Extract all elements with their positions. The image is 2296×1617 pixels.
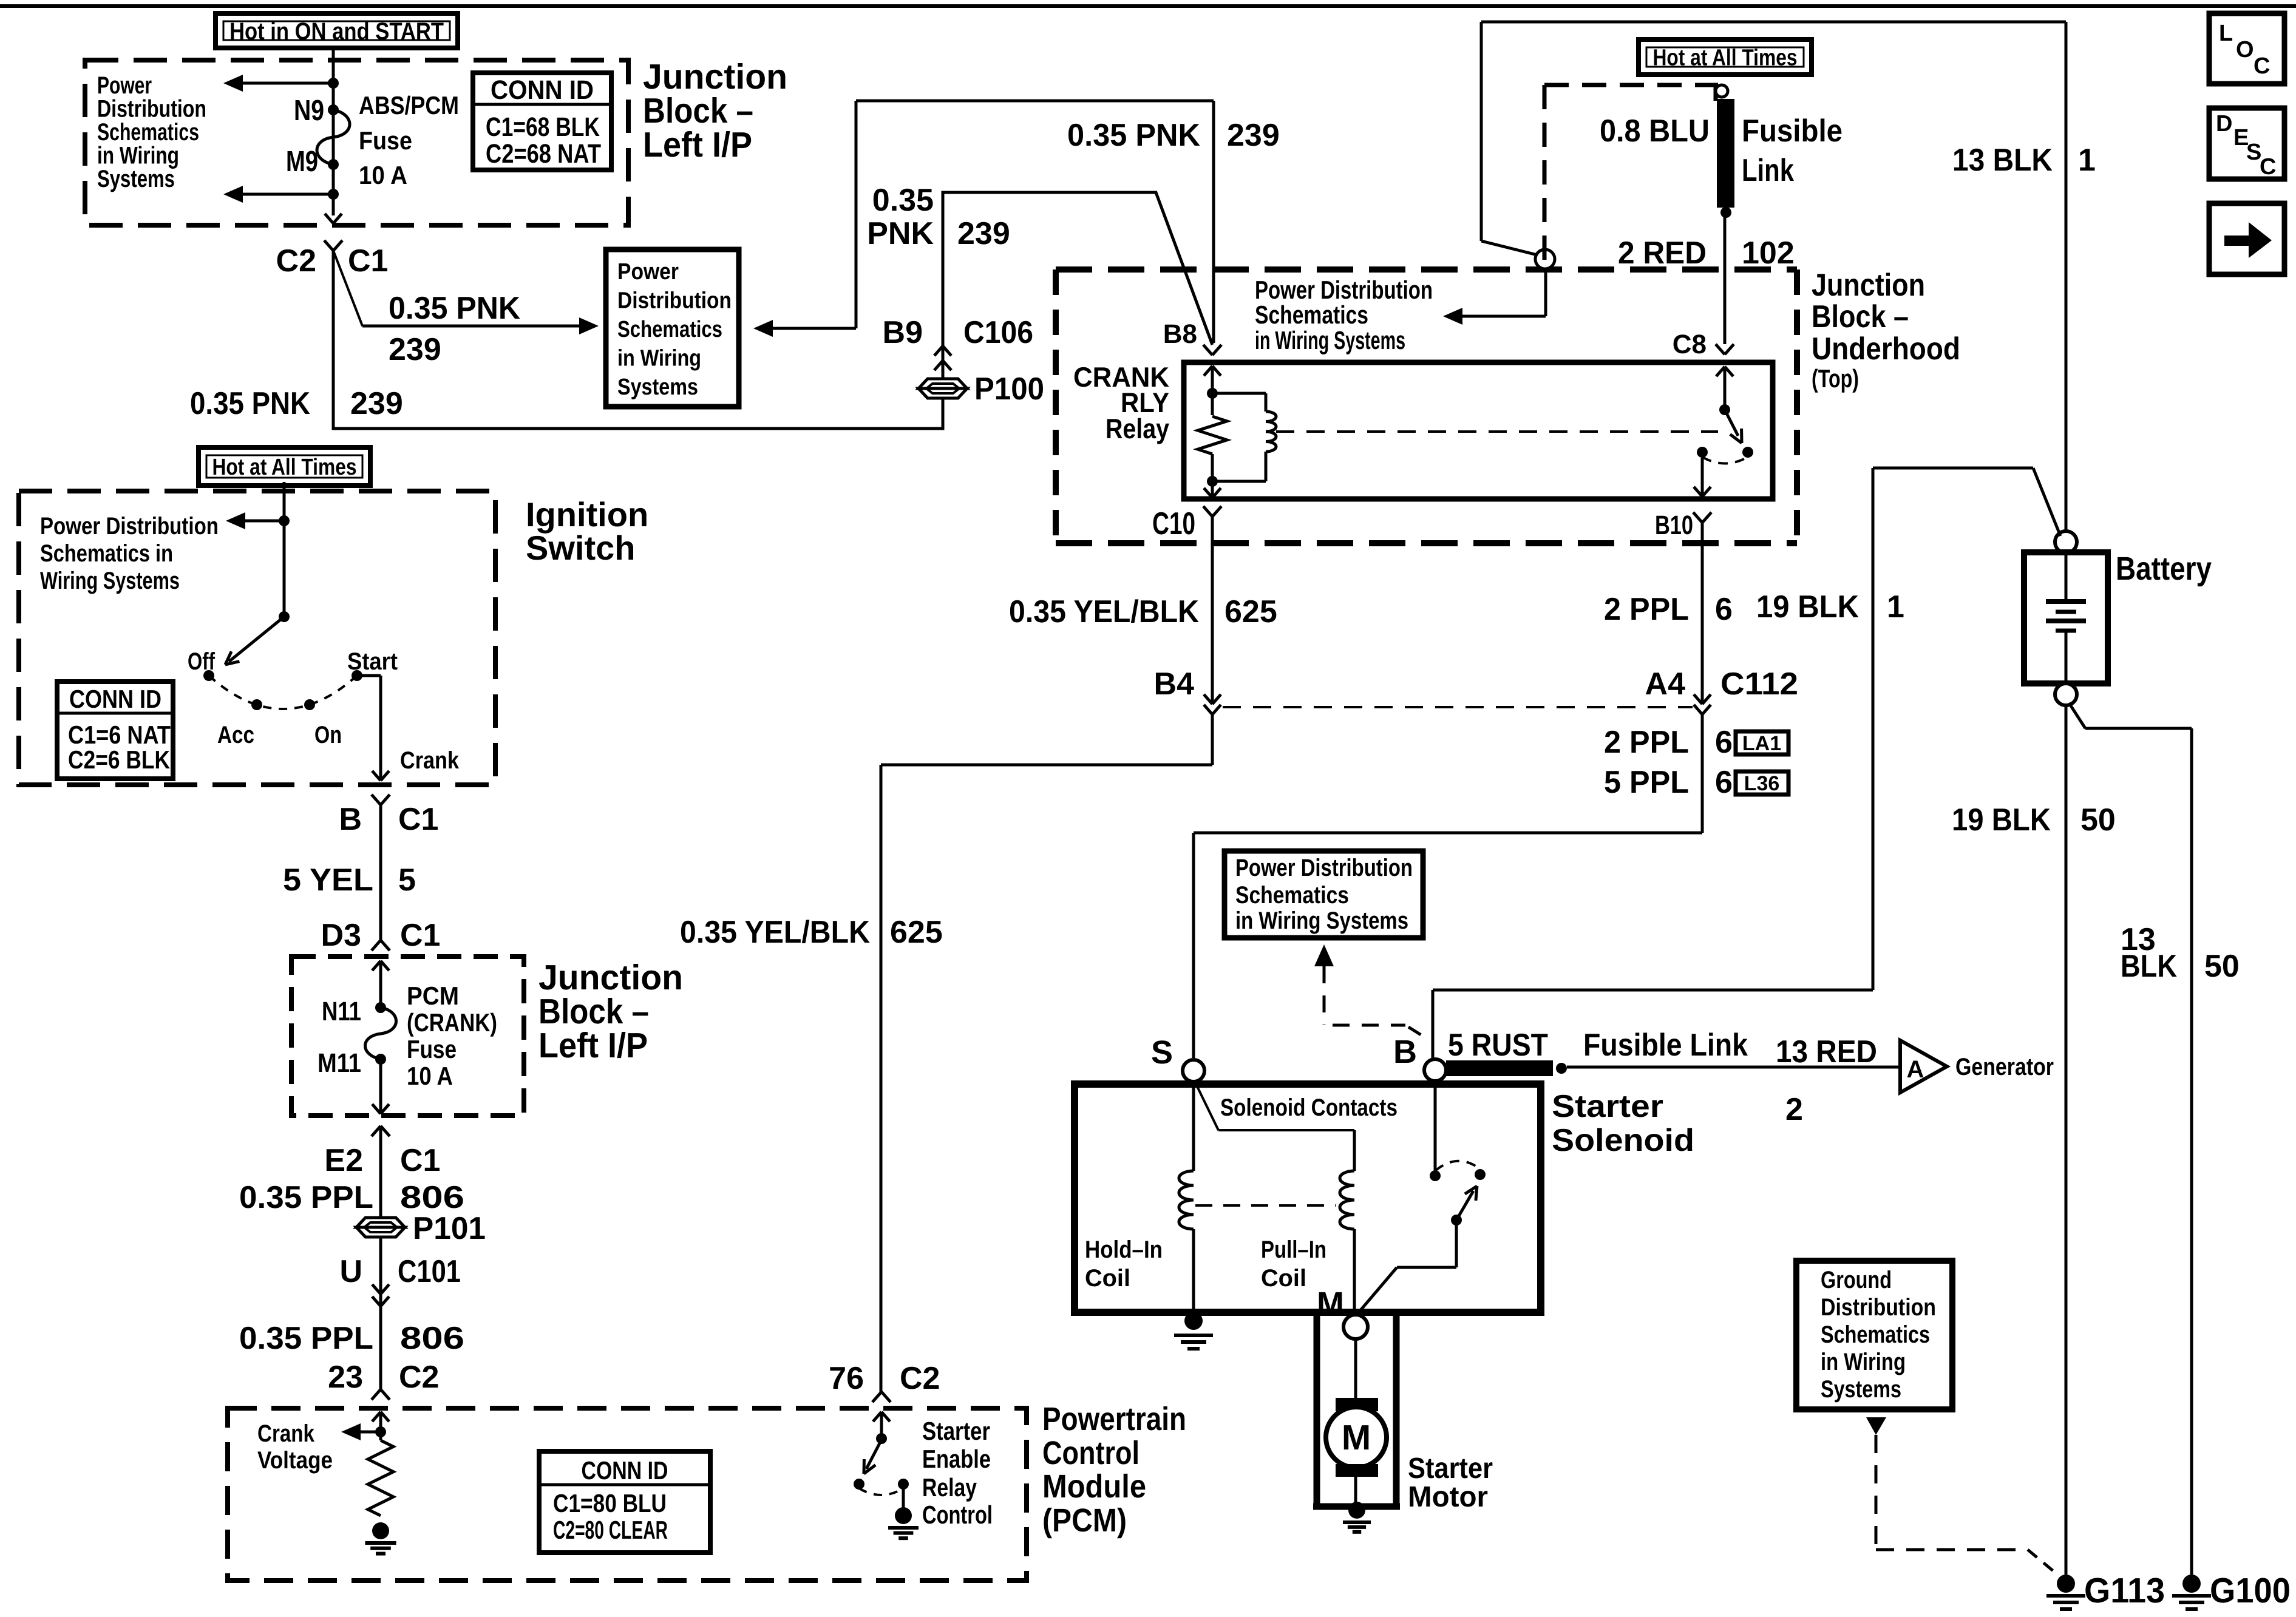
svg-text:0.35 PPL: 0.35 PPL xyxy=(239,1180,373,1215)
svg-text:B10: B10 xyxy=(1655,510,1693,540)
svg-text:C: C xyxy=(2254,53,2270,79)
svg-text:in Wiring: in Wiring xyxy=(1821,1349,1906,1375)
svg-text:Control: Control xyxy=(1042,1435,1140,1471)
svg-text:13 RED: 13 RED xyxy=(1776,1034,1877,1070)
svg-text:2 PPL: 2 PPL xyxy=(1604,592,1689,627)
svg-text:D: D xyxy=(2216,111,2232,137)
svg-text:Powertrain: Powertrain xyxy=(1042,1401,1186,1437)
svg-text:Systems: Systems xyxy=(1821,1376,1901,1403)
svg-text:239: 239 xyxy=(957,216,1010,251)
svg-text:Pull–In: Pull–In xyxy=(1261,1236,1326,1263)
svg-text:C1: C1 xyxy=(348,243,388,279)
svg-text:Power: Power xyxy=(617,259,679,285)
svg-text:806: 806 xyxy=(400,1321,464,1356)
svg-text:Fuse: Fuse xyxy=(359,126,412,155)
svg-text:G113: G113 xyxy=(2084,1571,2165,1610)
svg-text:Distribution: Distribution xyxy=(1821,1294,1936,1321)
svg-text:Wiring Systems: Wiring Systems xyxy=(40,568,180,594)
svg-text:C106: C106 xyxy=(963,315,1033,350)
svg-text:Coil: Coil xyxy=(1261,1265,1306,1292)
svg-text:239: 239 xyxy=(1227,118,1280,153)
svg-text:in Wiring: in Wiring xyxy=(617,346,701,371)
svg-text:C2: C2 xyxy=(276,243,316,279)
svg-text:5 RUST: 5 RUST xyxy=(1448,1028,1548,1063)
svg-text:Relay: Relay xyxy=(922,1473,977,1502)
svg-text:C2: C2 xyxy=(900,1361,940,1396)
svg-text:Power Distribution: Power Distribution xyxy=(40,513,219,540)
svg-text:L36: L36 xyxy=(1744,772,1780,795)
svg-text:1: 1 xyxy=(2078,143,2096,178)
svg-text:10 A: 10 A xyxy=(407,1062,453,1090)
svg-text:Solenoid Contacts: Solenoid Contacts xyxy=(1220,1094,1398,1121)
svg-text:C2=6 BLK: C2=6 BLK xyxy=(68,745,170,774)
svg-text:Link: Link xyxy=(1742,153,1794,188)
svg-text:0.35 PNK: 0.35 PNK xyxy=(389,291,520,326)
svg-text:Motor: Motor xyxy=(1408,1481,1488,1513)
svg-text:Switch: Switch xyxy=(526,529,635,567)
svg-text:CONN ID: CONN ID xyxy=(69,685,161,713)
svg-text:B9: B9 xyxy=(883,315,923,350)
svg-text:Systems: Systems xyxy=(97,166,175,192)
svg-text:P100: P100 xyxy=(974,371,1044,407)
svg-text:G100: G100 xyxy=(2210,1571,2291,1610)
svg-text:Systems: Systems xyxy=(617,375,698,400)
svg-text:D3: D3 xyxy=(321,918,361,953)
svg-text:Coil: Coil xyxy=(1085,1265,1130,1292)
svg-text:Schematics in: Schematics in xyxy=(40,540,173,567)
svg-text:50: 50 xyxy=(2204,949,2240,984)
svg-text:Fuse: Fuse xyxy=(407,1035,457,1063)
svg-text:B4: B4 xyxy=(1154,666,1195,702)
svg-text:C: C xyxy=(2260,154,2276,180)
svg-text:Schematics: Schematics xyxy=(1821,1321,1930,1348)
svg-text:C1: C1 xyxy=(400,918,440,953)
svg-text:A4: A4 xyxy=(1645,666,1686,702)
svg-text:C2=80 CLEAR: C2=80 CLEAR xyxy=(553,1516,668,1544)
svg-text:Block –: Block – xyxy=(1812,299,1909,334)
svg-text:Hold–In: Hold–In xyxy=(1085,1236,1163,1263)
svg-text:Power Distribution: Power Distribution xyxy=(1235,855,1413,881)
svg-text:Schematics: Schematics xyxy=(617,317,722,342)
svg-text:806: 806 xyxy=(400,1180,464,1215)
svg-text:C1=6 NAT: C1=6 NAT xyxy=(68,720,171,749)
svg-text:Off: Off xyxy=(188,648,216,675)
svg-text:C1=80 BLU: C1=80 BLU xyxy=(553,1489,667,1517)
svg-text:in Wiring: in Wiring xyxy=(97,143,179,169)
svg-text:102: 102 xyxy=(1742,236,1795,271)
svg-text:Hot at All Times: Hot at All Times xyxy=(1653,46,1798,71)
svg-text:13 BLK: 13 BLK xyxy=(1952,143,2053,178)
svg-text:Solenoid: Solenoid xyxy=(1552,1123,1694,1158)
svg-text:0.35 PNK: 0.35 PNK xyxy=(1067,118,1200,153)
svg-text:C10: C10 xyxy=(1152,506,1195,541)
svg-text:625: 625 xyxy=(890,915,943,950)
svg-text:Schematics: Schematics xyxy=(1235,882,1349,909)
svg-text:ABS/PCM: ABS/PCM xyxy=(359,91,459,120)
svg-text:Battery: Battery xyxy=(2116,551,2212,587)
svg-text:2: 2 xyxy=(1785,1092,1803,1127)
svg-text:0.35 PNK: 0.35 PNK xyxy=(190,386,310,421)
svg-text:(CRANK): (CRANK) xyxy=(407,1008,497,1037)
svg-text:in Wiring Systems: in Wiring Systems xyxy=(1255,326,1405,354)
svg-text:Hot in ON and START: Hot in ON and START xyxy=(229,18,444,45)
svg-text:Schematics: Schematics xyxy=(1255,300,1368,329)
svg-text:PCM: PCM xyxy=(407,981,459,1010)
svg-text:O: O xyxy=(2236,37,2254,63)
svg-text:Acc: Acc xyxy=(217,722,254,748)
svg-text:0.35: 0.35 xyxy=(872,183,934,218)
svg-text:PNK: PNK xyxy=(867,216,934,251)
svg-text:Generator: Generator xyxy=(1955,1054,2054,1080)
svg-text:Voltage: Voltage xyxy=(257,1447,333,1474)
svg-text:B: B xyxy=(1393,1034,1417,1070)
svg-text:Power Distribution: Power Distribution xyxy=(1255,276,1433,304)
svg-text:CONN ID: CONN ID xyxy=(491,75,594,105)
svg-text:19 BLK: 19 BLK xyxy=(1952,802,2051,838)
svg-text:C112: C112 xyxy=(1720,666,1798,702)
svg-text:Starter: Starter xyxy=(1552,1089,1663,1124)
svg-text:6: 6 xyxy=(1715,725,1733,760)
svg-text:CONN ID: CONN ID xyxy=(582,1456,668,1485)
svg-text:76: 76 xyxy=(829,1361,864,1396)
svg-text:C101: C101 xyxy=(398,1254,461,1289)
svg-text:B: B xyxy=(339,802,362,837)
svg-text:C8: C8 xyxy=(1673,330,1707,359)
svg-text:E2: E2 xyxy=(324,1143,363,1178)
svg-text:Starter: Starter xyxy=(922,1417,990,1445)
svg-text:Left I/P: Left I/P xyxy=(643,125,752,164)
svg-text:C2=68 NAT: C2=68 NAT xyxy=(486,139,601,169)
svg-text:Ignition: Ignition xyxy=(526,495,648,534)
svg-text:239: 239 xyxy=(389,332,441,367)
svg-text:N9: N9 xyxy=(294,95,324,127)
svg-text:M9: M9 xyxy=(286,146,318,178)
svg-text:0.35 YEL/BLK: 0.35 YEL/BLK xyxy=(1009,594,1199,629)
svg-text:U: U xyxy=(339,1254,362,1289)
svg-text:Starter: Starter xyxy=(1408,1453,1493,1485)
svg-text:Fusible Link: Fusible Link xyxy=(1583,1028,1748,1063)
svg-text:M: M xyxy=(1342,1418,1371,1457)
svg-text:B8: B8 xyxy=(1163,319,1197,349)
svg-text:5 YEL: 5 YEL xyxy=(283,863,373,898)
svg-text:10 A: 10 A xyxy=(359,161,407,189)
svg-text:C1: C1 xyxy=(398,802,438,837)
svg-text:0.35 YEL/BLK: 0.35 YEL/BLK xyxy=(680,915,870,950)
svg-text:Relay: Relay xyxy=(1106,413,1169,444)
svg-text:23: 23 xyxy=(328,1360,363,1395)
svg-text:Left I/P: Left I/P xyxy=(538,1026,648,1065)
svg-text:Distribution: Distribution xyxy=(97,96,206,123)
svg-text:2 RED: 2 RED xyxy=(1618,236,1707,271)
svg-text:Hot at All Times: Hot at All Times xyxy=(212,455,357,480)
svg-text:Ground: Ground xyxy=(1821,1267,1892,1293)
svg-text:Crank: Crank xyxy=(400,747,460,774)
svg-text:5 PPL: 5 PPL xyxy=(1604,765,1689,800)
svg-text:C1: C1 xyxy=(400,1143,440,1178)
svg-text:Enable: Enable xyxy=(922,1445,991,1473)
svg-text:N11: N11 xyxy=(322,997,361,1026)
svg-text:(Top): (Top) xyxy=(1812,364,1859,393)
svg-text:Power: Power xyxy=(97,72,152,99)
svg-text:Junction: Junction xyxy=(1812,268,1925,303)
svg-text:239: 239 xyxy=(350,386,403,421)
svg-text:P101: P101 xyxy=(413,1211,486,1246)
svg-text:625: 625 xyxy=(1224,594,1277,629)
svg-text:M: M xyxy=(1317,1286,1344,1322)
svg-text:S: S xyxy=(1151,1034,1173,1071)
svg-text:A: A xyxy=(1907,1056,1924,1083)
svg-text:M11: M11 xyxy=(318,1048,361,1078)
svg-text:6: 6 xyxy=(1715,592,1733,627)
svg-text:L: L xyxy=(2219,21,2233,46)
svg-text:5: 5 xyxy=(398,863,416,898)
svg-text:0.35 PPL: 0.35 PPL xyxy=(239,1321,373,1356)
svg-text:in Wiring Systems: in Wiring Systems xyxy=(1235,907,1408,934)
svg-text:2 PPL: 2 PPL xyxy=(1604,725,1689,760)
svg-text:50: 50 xyxy=(2080,802,2116,838)
svg-text:Module: Module xyxy=(1042,1468,1146,1505)
svg-text:Distribution: Distribution xyxy=(617,288,732,314)
svg-text:0.8 BLU: 0.8 BLU xyxy=(1600,114,1710,149)
svg-text:LA1: LA1 xyxy=(1742,732,1781,755)
svg-text:6: 6 xyxy=(1715,765,1733,800)
svg-text:On: On xyxy=(314,722,342,748)
svg-text:Fusible: Fusible xyxy=(1742,114,1843,149)
svg-text:Crank: Crank xyxy=(257,1420,315,1447)
svg-text:Control: Control xyxy=(922,1500,993,1529)
svg-text:(PCM): (PCM) xyxy=(1042,1502,1127,1539)
svg-text:19 BLK: 19 BLK xyxy=(1756,589,1859,625)
svg-text:Underhood: Underhood xyxy=(1812,331,1960,367)
svg-text:Start: Start xyxy=(347,648,398,675)
svg-text:C1=68 BLK: C1=68 BLK xyxy=(486,112,600,142)
svg-text:1: 1 xyxy=(1887,589,1904,625)
svg-text:Schematics: Schematics xyxy=(97,119,199,146)
svg-text:BLK: BLK xyxy=(2121,949,2177,984)
svg-text:C2: C2 xyxy=(399,1360,439,1395)
